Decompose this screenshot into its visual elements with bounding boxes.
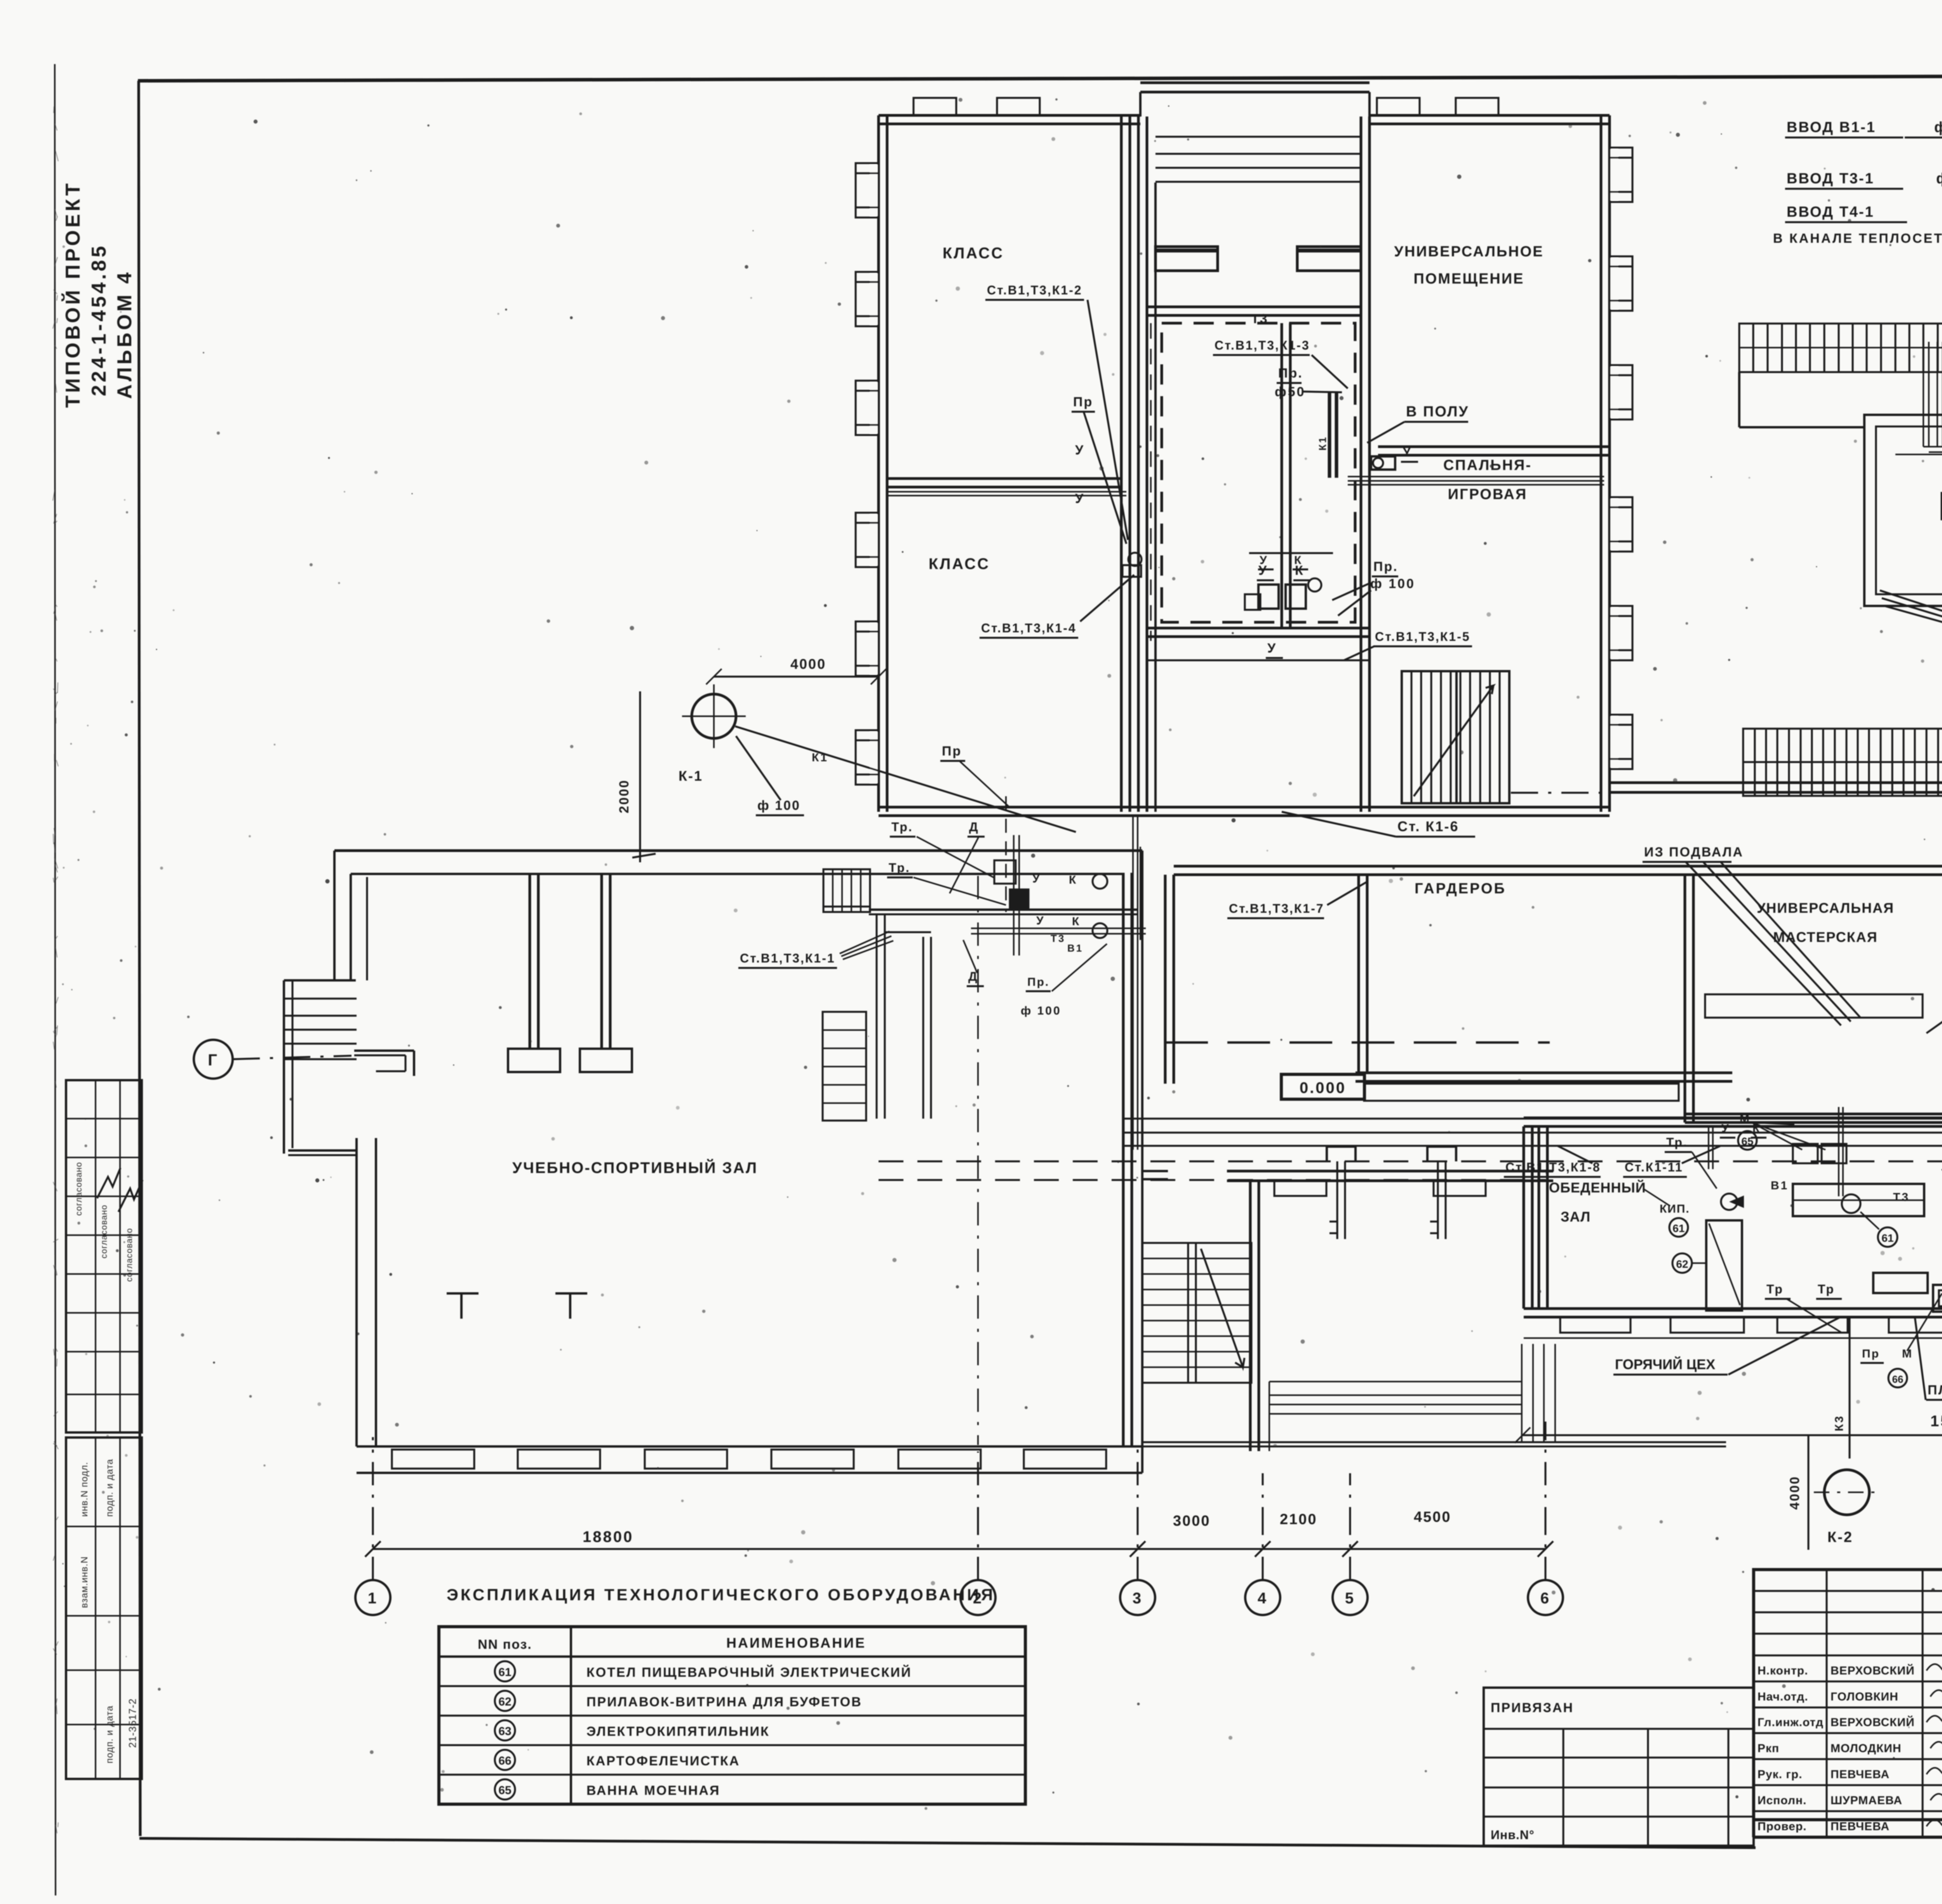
svg-text:62: 62 [1676,1258,1688,1270]
equipment table grid [439,1627,1025,1804]
svg-text:Пр: Пр [942,744,962,759]
svg-text:Нач.отд.: Нач.отд. [1758,1690,1808,1703]
svg-text:Ркп: Ркп [1758,1742,1779,1755]
dining porch window bays [1274,1181,1326,1196]
К-1 sewer diagonal К1 [735,726,1076,832]
dashed utility line long [879,1161,1942,1163]
svg-text:ПЕВЧЕВА: ПЕВЧЕВА [1831,1768,1890,1781]
svg-text:ПЛ-2: ПЛ-2 [1928,1383,1942,1398]
equipment row 65 [495,1779,515,1800]
core duct channel [1328,392,1331,478]
washing bath fixture [1933,1285,1942,1312]
bottom axis circle 1 [355,1580,390,1615]
main pipe run T4 T3 B1 [1122,1118,1942,1120]
svg-text:К: К [1072,915,1081,928]
personnel rows [1754,1655,1942,1657]
svg-text:ВЕРХОВСКИЙ: ВЕРХОВСКИЙ [1831,1716,1915,1729]
svg-text:инв.N подл.: инв.N подл. [79,1462,90,1517]
dim 4000 near K-2 [1808,1435,1810,1550]
bottom axis stems [372,1437,374,1530]
corridor bottom wall [1174,865,1942,868]
kitchen counter big [1793,1184,1924,1216]
svg-text:3000: 3000 [1173,1513,1211,1529]
svg-text:ф 100: ф 100 [757,798,800,813]
kitchen south windows [1560,1317,1631,1333]
axis 2 dash through gym [977,876,979,1445]
entry porch canopy top [1140,82,1369,84]
svg-text:Тр.: Тр. [891,820,913,834]
svg-text:УНИВЕРСАЛЬНАЯ: УНИВЕРСАЛЬНАЯ [1757,900,1894,916]
universal room block walls [1600,115,1603,812]
svg-text:К: К [1069,874,1077,886]
svg-text:У: У [1260,554,1268,567]
gym west door threshold [354,1049,414,1052]
svg-text:Д: Д [969,820,979,834]
bottom axis circle 6 [1528,1580,1563,1615]
fragment pit inner pipes [1895,454,1942,455]
signature squiggles [97,1168,120,1198]
svg-text:ф 100: ф 100 [1370,576,1415,591]
svg-text:61: 61 [498,1666,511,1679]
svg-text:КАРТОФЕЛЕЧИСТКА: КАРТОФЕЛЕЧИСТКА [586,1754,740,1768]
svg-text:Ст. К1-6: Ст. К1-6 [1397,818,1459,834]
gym outer walls [334,849,1142,852]
north entrance stair east wing [1743,729,1942,796]
frame border top [138,75,1942,81]
vertical riser pair near core [1132,816,1134,1150]
classroom block outer walls [877,115,880,812]
svg-text:Ст.В1,Т3,К1-4: Ст.В1,Т3,К1-4 [981,621,1077,635]
svg-text:Пр: Пр [1073,395,1093,409]
grand south staircase [1142,1243,1251,1383]
svg-text:Т3: Т3 [1893,1191,1910,1204]
fragment walls [1738,372,1740,427]
svg-text:МАСТЕРСКАЯ: МАСТЕРСКАЯ [1773,929,1878,945]
classroom block bottom wall / corridor top [879,806,1610,809]
gym west porch steps [284,979,356,982]
dim 4000 K-1 [714,676,879,678]
svg-text:Ст.В1,Т3,К1-5: Ст.В1,Т3,К1-5 [1375,630,1470,644]
svg-text:Ст.К1-11: Ст.К1-11 [1625,1160,1683,1174]
terrace steps [1269,1381,1522,1382]
svg-text:ВВОД Т3-1: ВВОД Т3-1 [1787,171,1874,187]
pipes leaving core to the right [1348,476,1604,477]
svg-text:ПЕВЧЕВА: ПЕВЧЕВА [1831,1820,1890,1833]
personnel columns [1752,1570,1755,1837]
canopy side walls [1146,183,1148,307]
svg-text:Ст.В1,Т3,К1-2: Ст.В1,Т3,К1-2 [987,283,1082,297]
svg-text:66: 66 [498,1754,511,1767]
bottom axis circle 2 [961,1580,995,1615]
wall between the two classrooms [887,477,1121,480]
sheet left ragged edge line [55,64,56,1895]
svg-text:В ПОЛУ: В ПОЛУ [1406,404,1469,420]
svg-text:Н.контр.: Н.контр. [1758,1664,1808,1677]
svg-text:М: М [1740,1112,1751,1125]
frame border bottom [139,1838,1756,1848]
svg-text:Т3: Т3 [1251,312,1268,326]
svg-text:Гл.инж.отд: Гл.инж.отд [1758,1716,1824,1729]
svg-text:согласовано: согласовано [99,1204,109,1258]
привязан sub-table [1484,1688,1754,1846]
equipment row 61 [495,1661,515,1681]
svg-text:К1: К1 [1317,436,1328,451]
svg-text:В1: В1 [1067,942,1083,954]
svg-text:Исполн.: Исполн. [1758,1794,1806,1807]
bottom axis circle 3 [1120,1580,1155,1615]
vestibule east wall [1249,1180,1252,1451]
svg-text:У: У [1075,491,1085,506]
frame border left [139,81,140,1836]
vertical pipes kitchen interior [1838,1107,1839,1196]
svg-text:4000: 4000 [1787,1476,1802,1510]
svg-text:61: 61 [1881,1232,1893,1244]
svg-text:У: У [1032,872,1041,885]
svg-text:У: У [1721,1122,1730,1135]
core inner dashed sanitary block [1162,323,1355,622]
bottom axis circle 4 [1245,1580,1280,1615]
gym south windows [392,1450,474,1469]
dim 15000 [1523,1434,1942,1436]
gym partition stubs [529,873,531,1049]
svg-text:Пр.: Пр. [1373,559,1398,574]
svg-text:ВВОД Т4-1: ВВОД Т4-1 [1787,204,1874,220]
workshop walls [1684,875,1686,1123]
svg-text:ШУРМАЕВА: ШУРМАЕВА [1831,1794,1902,1807]
0.000 level box [1281,1074,1364,1099]
svg-text:УНИВЕРСАЛЬНОЕ: УНИВЕРСАЛЬНОЕ [1394,244,1544,260]
svg-text:подп. и дата: подп. и дата [104,1459,115,1517]
junction corridor walls [869,908,1138,911]
manhole К-2 [1824,1470,1869,1515]
svg-text:ЗАЛ: ЗАЛ [1561,1209,1590,1225]
svg-text:Пр: Пр [1862,1347,1880,1360]
svg-text:В КАНАЛЕ ТЕПЛОСЕТИ: В КАНАЛЕ ТЕПЛОСЕТИ [1773,231,1942,246]
svg-text:КЛАСС: КЛАСС [943,245,1004,262]
dim 2000 K-1 vertical [639,691,641,862]
equipment row 63 [495,1720,515,1740]
svg-text:согласовано: согласовано [124,1228,134,1282]
svg-text:ОБЕДЕННЫЙ: ОБЕДЕННЫЙ [1549,1179,1646,1196]
dashed line lower corridor [879,1179,1546,1181]
junction stair A (corridor to gym) [823,869,870,912]
porch piers [1327,1145,1356,1148]
pipes T4 T3 into pit [1923,342,1924,447]
svg-text:ПРИЛАВОК-ВИТРИНА ДЛЯ БУФЕТОВ: ПРИЛАВОК-ВИТРИНА ДЛЯ БУФЕТОВ [586,1695,862,1709]
north wall window marks classroom [914,98,956,115]
svg-text:ВЕРХОВСКИЙ: ВЕРХОВСКИЙ [1831,1664,1915,1677]
svg-text:К3: К3 [1833,1415,1846,1431]
classroom left wall windows [870,165,879,216]
svg-text:Рук. гр.: Рук. гр. [1758,1768,1803,1781]
sink fixture dining [1721,1194,1737,1210]
svg-text:ЭКСПЛИКАЦИЯ ТЕХНОЛОГИЧЕСКОГО: ЭКСПЛИКАЦИЯ ТЕХНОЛОГИЧЕСКОГО ОБОРУДОВАНИ… [447,1586,995,1604]
svg-text:Тр.: Тр. [889,861,910,875]
svg-text:К-1: К-1 [679,768,703,784]
dining west wall [1523,1126,1525,1309]
dashed line through vestibule [1165,1041,1550,1044]
kitchen south wall axis Б [1524,1307,1942,1310]
right wall windows [1610,149,1618,200]
manhole К-1 [692,694,736,738]
porch door posts [1155,247,1218,271]
title block outer [1754,1570,1942,1820]
svg-text:ф 40: ф 40 [1936,171,1942,187]
svg-text:НАИМЕНОВАНИЕ: НАИМЕНОВАНИЕ [726,1635,866,1651]
svg-text:15000: 15000 [1930,1413,1942,1430]
svg-text:2100: 2100 [1280,1511,1317,1528]
kitchen equipment: tall stove [1706,1220,1742,1311]
pit outer wall [1864,415,1942,606]
svg-text:ИЗ ПОДВАЛА: ИЗ ПОДВАЛА [1644,845,1744,860]
left axis circle Г [194,1040,233,1079]
bottom dimension line [373,1548,1545,1550]
svg-text:ПОМЕЩЕНИЕ: ПОМЕЩЕНИЕ [1413,271,1524,287]
svg-text:Пр.: Пр. [1027,976,1049,989]
pipe run along classroom divider [887,491,1126,493]
north wall window marks УП [1377,98,1420,115]
svg-text:63: 63 [498,1725,511,1738]
svg-text:УЧЕБНО-СПОРТИВНЫЙ ЗАЛ: УЧЕБНО-СПОРТИВНЫЙ ЗАЛ [512,1159,758,1177]
svg-text:взам.инв.N: взам.инв.N [79,1556,90,1608]
svg-text:3: 3 [1133,1590,1143,1607]
svg-text:МОЛОДКИН: МОЛОДКИН [1831,1742,1901,1755]
svg-text:18800: 18800 [583,1528,633,1545]
svg-text:КЛАСС: КЛАСС [929,555,990,573]
svg-text:65: 65 [498,1784,511,1797]
svg-text:Провер.: Провер. [1758,1820,1807,1833]
riser dash line in corridor shaft [1150,323,1152,641]
small table kitchen [1873,1273,1928,1293]
svg-text:У: У [1267,641,1277,656]
equipment circled 62 [1672,1253,1692,1273]
kitchen north wall [1524,1117,1942,1119]
wc fixtures bottom of core [1249,552,1333,554]
svg-text:ГАРДЕРОБ: ГАРДЕРОБ [1415,881,1506,897]
svg-text:66: 66 [1892,1373,1904,1385]
svg-text:21-3517-2: 21-3517-2 [127,1698,138,1748]
svg-text:К1: К1 [812,751,828,764]
svg-text:АЛЬБОМ 4: АЛЬБОМ 4 [113,270,136,399]
svg-text:У: У [1036,914,1045,927]
svg-text:согласовано: согласовано [74,1162,84,1216]
equipment row 62 [495,1691,515,1711]
svg-text:ЭЛЕКТРОКИПЯТИЛЬНИК: ЭЛЕКТРОКИПЯТИЛЬНИК [586,1724,770,1739]
svg-text:СПАЛЬНЯ-: СПАЛЬНЯ- [1443,457,1532,473]
east wing top wall (axis Е) [1610,781,1942,784]
svg-text:Г: Г [208,1051,219,1069]
svg-text:Тр.: Тр. [1666,1135,1688,1149]
svg-text:ИГРОВАЯ: ИГРОВАЯ [1448,486,1528,503]
svg-text:ВВОД В1-1: ВВОД В1-1 [1787,119,1876,136]
svg-text:К: К [1294,554,1302,567]
bottom axis circle 5 [1333,1580,1368,1615]
svg-text:ф50: ф50 [1275,385,1306,399]
svg-text:4000: 4000 [790,656,826,672]
svg-text:Ст.В1,Т3,К1-7: Ст.В1,Т3,К1-7 [1229,902,1324,915]
workshop inner bench [1705,994,1923,1018]
core outer walls [1137,117,1140,812]
svg-text:ПРИВЯЗАН: ПРИВЯЗАН [1491,1700,1574,1715]
cloakroom counter [1364,1084,1679,1101]
svg-text:ф 100: ф 100 [1021,1004,1061,1017]
porch steps lines [1155,136,1361,138]
svg-text:ф 65: ф 65 [1934,119,1942,136]
svg-text:1: 1 [368,1590,378,1607]
junction stair B [823,1012,866,1121]
cloakroom walls [1164,875,1167,1084]
equipment row 66 [495,1750,515,1770]
fragment entrance stair [1739,324,1942,372]
sink fixture core right [1371,456,1395,470]
svg-text:У: У [1075,443,1085,458]
svg-text:Тр: Тр [1818,1282,1835,1296]
svg-text:NN поз.: NN поз. [478,1637,532,1652]
svg-text:4: 4 [1258,1590,1268,1607]
core inner vertical wall [1281,323,1283,628]
left stamp table A [66,1080,142,1432]
personnel top small rows [1754,1590,1942,1592]
svg-text:Пр.: Пр. [1278,366,1303,381]
svg-text:КИП.: КИП. [1660,1203,1690,1215]
svg-text:Т3: Т3 [1051,933,1065,944]
svg-text:Тр: Тр [1766,1282,1784,1296]
svg-text:65: 65 [1741,1135,1753,1147]
svg-text:61: 61 [1672,1222,1684,1234]
svg-text:6: 6 [1540,1590,1550,1607]
svg-text:62: 62 [498,1695,511,1708]
svg-text:Ст.В1,Т3,К1-3: Ст.В1,Т3,К1-3 [1215,338,1310,352]
svg-text:224-1-454.85: 224-1-454.85 [88,244,110,396]
svg-text:ВАННА МОЕЧНАЯ: ВАННА МОЕЧНАЯ [586,1783,720,1798]
svg-text:5: 5 [1345,1590,1355,1607]
gym mid inner T marks [447,1292,479,1295]
fixture at classroom divider [1128,553,1142,566]
wc fixtures cluster [1093,874,1107,889]
boiler circle [1842,1194,1860,1213]
svg-text:ГОЛОВКИН: ГОЛОВКИН [1831,1690,1898,1703]
svg-text:КОТЕЛ ПИЩЕВАРОЧНЫЙ ЭЛЕКТРИЧЕ: КОТЕЛ ПИЩЕВАРОЧНЫЙ ЭЛЕКТРИЧЕСКИЙ [586,1665,912,1680]
left margin scan streaks [54,257,57,266]
svg-text:Инв.N°: Инв.N° [1491,1828,1535,1842]
main internal staircase [1402,671,1509,803]
svg-text:4500: 4500 [1414,1509,1451,1525]
svg-text:К-2: К-2 [1827,1529,1853,1545]
core bottom wall [1147,627,1369,630]
svg-text:В1: В1 [1771,1179,1789,1192]
svg-text:ГОРЯЧИЙ ЦЕХ: ГОРЯЧИЙ ЦЕХ [1615,1356,1715,1372]
svg-text:подп. и дата: подп. и дата [104,1706,115,1763]
divider wall УП / спальня [1378,446,1610,448]
svg-text:Ст.В1,Т3,К1-1: Ст.В1,Т3,К1-1 [740,951,835,965]
svg-text:0.000: 0.000 [1300,1079,1346,1096]
riser at cloakroom [1357,875,1360,1073]
left stamp table B [66,1438,142,1779]
vestibule south wall with door [1142,1170,1168,1172]
scan noise dots [1669,131,1671,133]
circled 61 right [1878,1227,1897,1247]
svg-text:2000: 2000 [617,779,632,813]
svg-text:ТИПОВОЙ ПРОЕКТ: ТИПОВОЙ ПРОЕКТ [61,181,84,408]
